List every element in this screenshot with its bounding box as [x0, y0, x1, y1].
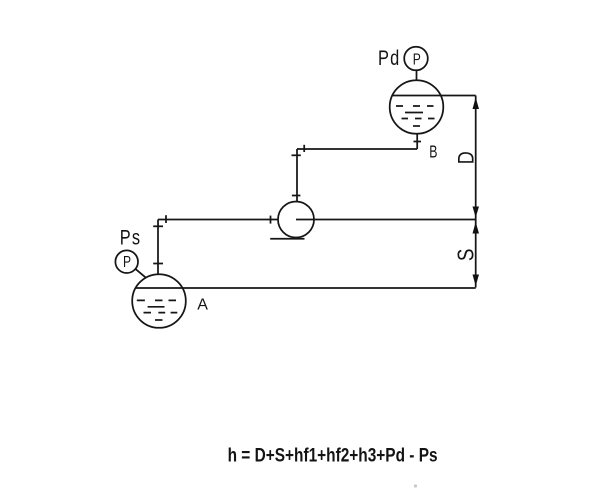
flange tick near suction corner — [165, 215, 167, 223]
tank A vessel circle — [132, 274, 186, 328]
flange tick upper on tank A riser — [153, 225, 163, 227]
svg-text:P: P — [123, 253, 131, 271]
svg-text:D: D — [455, 151, 479, 164]
discharge pipe horizontal run (tank B to riser) — [297, 148, 417, 150]
pressure gauge Ps circle — [115, 250, 138, 273]
dimension arrow up at top of D — [473, 98, 480, 110]
pressure gauge Pd circle — [404, 47, 428, 71]
suction riser from tank A — [157, 220, 159, 275]
flange tick lower on riser (pump outlet) — [292, 195, 301, 197]
flange tick on horizontal discharge run — [303, 145, 305, 152]
pump discharge center line to dimension line — [296, 219, 476, 221]
svg-text:h = D+S+hf1+hf2+h3+Pd - Ps: h = D+S+hf1+hf2+h3+Pd - Ps — [228, 445, 438, 467]
tank B vessel circle — [390, 80, 444, 134]
pump base tangent line — [270, 238, 304, 240]
flange tick upper on riser — [292, 154, 301, 156]
tank B liquid dashes — [396, 106, 435, 126]
pump casing circle — [278, 202, 314, 238]
discharge riser vertical pipe — [296, 149, 298, 202]
svg-text:A: A — [197, 296, 208, 313]
tank B top nozzle stub to gauge — [416, 71, 418, 81]
dimension arrow up at top of S — [473, 222, 480, 234]
stray faint dot artifact — [414, 484, 417, 487]
suction pipe horizontal run — [158, 219, 278, 221]
gauge Ps connecting diagonal line — [135, 269, 146, 278]
svg-text:P: P — [413, 50, 421, 68]
svg-text:Pd: Pd — [378, 46, 400, 69]
tank A liquid dashes — [137, 300, 178, 320]
flange tick lower on tank A riser — [153, 263, 163, 265]
tank A liquid level line (extends to dimension line) — [136, 287, 476, 289]
svg-text:B: B — [429, 142, 437, 162]
tank B liquid level line (extends to dimension line) — [393, 95, 476, 97]
flange tick at pump suction — [270, 216, 272, 224]
svg-text:Ps: Ps — [120, 226, 141, 249]
tank B bottom nozzle stub — [416, 134, 418, 150]
dimension arrow down at bottom of D — [473, 207, 480, 218]
svg-text:S: S — [454, 249, 479, 262]
dimension line vertical D+S — [475, 96, 477, 288]
flange tick on tank B bottom stub — [414, 141, 422, 143]
dimension arrow down at bottom of S — [473, 275, 480, 287]
